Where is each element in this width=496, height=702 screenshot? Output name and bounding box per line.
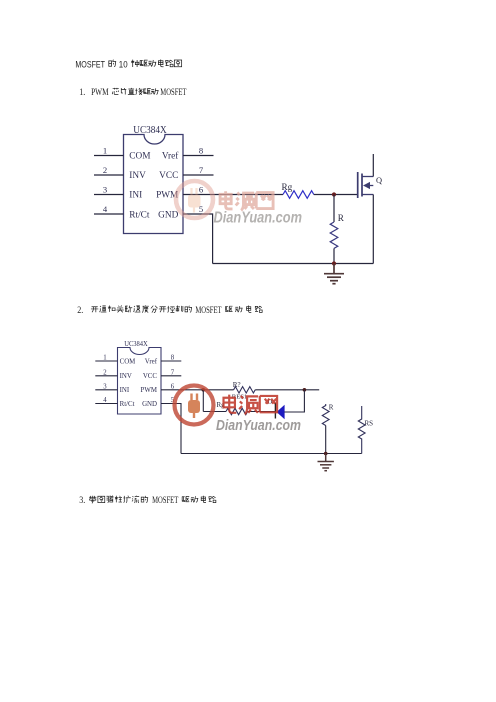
IC U2 pin wires <box>95 361 181 404</box>
pin 1 wire <box>94 155 124 157</box>
wire Rg to diode <box>248 411 276 413</box>
svg-text:DianYuan.com: DianYuan.com <box>214 210 303 227</box>
svg-text:Rt/Ct: Rt/Ct <box>120 401 135 408</box>
svg-text:DianYuan.com: DianYuan.com <box>216 417 301 434</box>
svg-text:GND: GND <box>158 211 178 221</box>
wire to Rg <box>203 411 226 413</box>
svg-text:INV: INV <box>120 373 132 380</box>
pin 3 wire <box>95 389 117 391</box>
pin 7 wire <box>161 375 181 377</box>
svg-text:INI: INI <box>120 387 130 394</box>
wire RES1 to node C and stub right <box>255 389 319 391</box>
svg-text:MOSFET: MOSFET <box>195 305 222 315</box>
wire node B down to Rg branch <box>202 390 204 412</box>
svg-text:7: 7 <box>199 165 204 175</box>
node B junction dot <box>202 388 206 392</box>
body stub <box>369 185 373 187</box>
svg-text:MOSFET: MOSFET <box>160 87 187 97</box>
MOSFET arrow <box>363 182 370 189</box>
diode D cathode bar <box>274 403 276 419</box>
gate bar <box>357 172 359 198</box>
wire node A down to R <box>333 195 335 223</box>
svg-text:MOSFET: MOSFET <box>152 495 179 505</box>
svg-text:VCC: VCC <box>143 373 158 380</box>
svg-text:Rt/Ct: Rt/Ct <box>129 211 150 221</box>
IC U1 pin numbers <box>103 146 204 215</box>
bottom rail wire (circuit 2) <box>181 453 362 455</box>
wire pin5 right then down <box>183 214 213 264</box>
svg-text:COM: COM <box>120 358 136 365</box>
channel bar <box>361 174 363 197</box>
wire diode to riser and up to node C <box>284 390 304 412</box>
pin 1 wire <box>95 360 117 362</box>
pin 2 wire <box>95 375 117 377</box>
op-amp/controller IC U1 UC384X <box>124 135 184 234</box>
IC U2 pin numbers <box>103 355 175 405</box>
pin 4 wire <box>94 213 124 215</box>
svg-text:10: 10 <box>119 59 128 70</box>
svg-text:R: R <box>338 213 345 223</box>
svg-text:6: 6 <box>199 185 204 195</box>
svg-text:Rg: Rg <box>282 182 293 192</box>
pin 8 wire <box>161 360 181 362</box>
watermark logo ring (circuit 1, faint) <box>176 181 213 218</box>
transistor Q (N-MOSFET) <box>358 172 362 198</box>
svg-text:COM: COM <box>129 152 150 162</box>
pin 7 wire <box>183 174 214 176</box>
svg-text:4: 4 <box>103 204 108 214</box>
ground symbol <box>324 264 344 284</box>
svg-text:PWM: PWM <box>141 387 157 394</box>
IC U2 UC384X <box>118 348 162 415</box>
svg-text:3: 3 <box>103 185 107 195</box>
pin 3 wire <box>94 194 124 196</box>
svg-text:8: 8 <box>199 146 203 156</box>
source wire down <box>372 195 374 264</box>
wire Rg to MOSFET gate <box>314 194 358 196</box>
svg-text:R?: R? <box>233 381 241 389</box>
node C junction dot <box>303 388 307 392</box>
source stub <box>362 194 373 196</box>
svg-text:INI: INI <box>129 191 142 201</box>
ground junction dot <box>332 261 336 265</box>
ground symbol (circuit 2) <box>318 454 334 471</box>
svg-text:2.: 2. <box>77 305 83 315</box>
resistor Rg (circuit 2) <box>226 408 248 414</box>
svg-text:1.: 1. <box>79 87 85 97</box>
wire pin5 right then down <box>161 404 181 454</box>
resistor R (gate pulldown, floating top) <box>322 404 329 426</box>
watermark text 电源网 (circuit 2, red) <box>224 395 278 415</box>
svg-text:Vref: Vref <box>162 151 179 162</box>
watermark logo ring (circuit 2, strong) <box>175 386 214 425</box>
pin 4 wire <box>95 403 117 405</box>
svg-text:R: R <box>329 404 334 412</box>
svg-text:UC384X: UC384X <box>124 340 148 348</box>
watermark text 电源网 (circuit 1, pink) <box>220 191 273 210</box>
drain wire up <box>372 154 374 177</box>
drain stub <box>362 176 373 178</box>
IC U2 pin labels <box>120 358 158 408</box>
resistor Rg <box>283 191 314 199</box>
svg-text:Vref: Vref <box>145 358 158 365</box>
resistor RS <box>358 406 365 454</box>
wire R to ground rail <box>333 248 335 263</box>
pin 8 wire <box>183 155 214 157</box>
wire R to rail <box>325 426 327 454</box>
svg-text:PWM: PWM <box>91 87 109 97</box>
svg-text:GND: GND <box>142 401 157 408</box>
pin 2 wire <box>94 174 124 176</box>
node A junction dot <box>332 192 336 196</box>
diode D body <box>277 405 284 418</box>
svg-text:VCC: VCC <box>159 171 178 181</box>
svg-text:INV: INV <box>129 171 146 181</box>
bottom rail wire <box>213 263 374 265</box>
wire pin6 to Rg <box>183 194 283 196</box>
resistor R? RES1 <box>234 387 256 393</box>
svg-text:1: 1 <box>103 146 107 156</box>
resistor R <box>330 222 338 248</box>
svg-text:MOSFET: MOSFET <box>75 59 105 70</box>
IC U1 pin wires <box>94 156 214 215</box>
IC U1 pin labels <box>129 151 179 221</box>
svg-text:2: 2 <box>103 165 107 175</box>
svg-text:3.: 3. <box>79 495 85 505</box>
svg-text:UC384X: UC384X <box>133 125 167 136</box>
wire pin6 to node B <box>161 389 234 391</box>
svg-text:Q: Q <box>376 176 382 185</box>
svg-text:RS: RS <box>365 420 374 428</box>
ground junction dot (circuit 2) <box>324 452 328 456</box>
